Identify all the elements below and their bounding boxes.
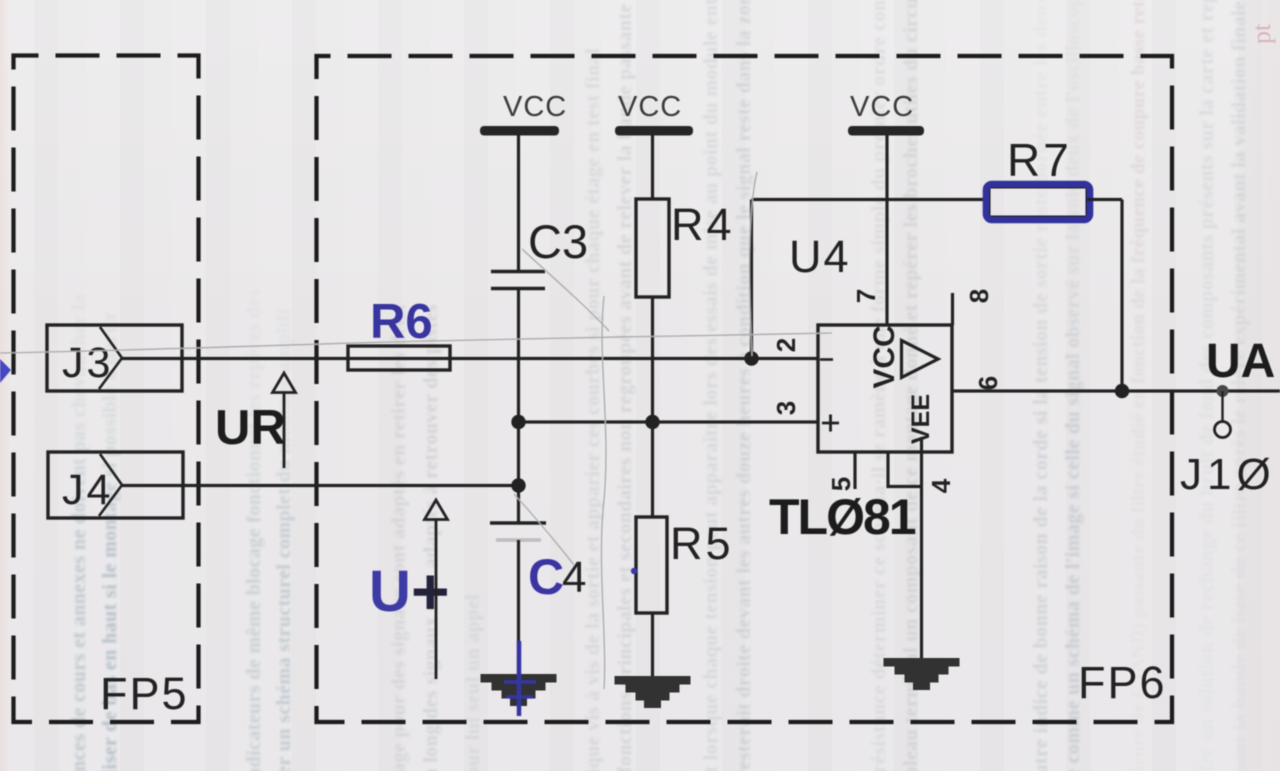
- wire C4 to ground: [517, 540, 520, 676]
- svg-text:UR: UR: [215, 401, 286, 455]
- svg-text:VEE: VEE: [907, 394, 935, 444]
- ground (C4): [481, 674, 557, 706]
- pin 8 number: [964, 289, 994, 303]
- label J10: [1180, 450, 1276, 499]
- label R6 (blue pen): [370, 295, 433, 349]
- op-amp plus tick (pin3): [822, 415, 839, 432]
- svg-text:VCC: VCC: [850, 91, 914, 123]
- wire output riser: [1120, 200, 1123, 392]
- svg-text:R7: R7: [1007, 134, 1072, 186]
- wire J3 to opamp pin2: [122, 357, 818, 360]
- svg-text:J4: J4: [62, 466, 113, 514]
- connector J3: [47, 325, 182, 391]
- FP5 dashed border: [14, 56, 199, 723]
- arrow UR: [273, 373, 296, 468]
- svg-text:C3: C3: [528, 215, 588, 268]
- svg-text:R4: R4: [671, 199, 735, 250]
- svg-text:pt: pt: [1247, 23, 1276, 44]
- connector J4: [48, 452, 183, 518]
- svg-text:U4: U4: [789, 231, 851, 282]
- wire VCC to R4: [651, 135, 654, 199]
- resistor R5: [636, 517, 667, 613]
- svg-text:7: 7: [851, 289, 881, 303]
- label R5: [670, 518, 734, 569]
- junction C3/pin3: [511, 415, 525, 429]
- arrow U+: [425, 500, 448, 679]
- op-amp U4 body: [818, 325, 952, 452]
- pin 3 number: [771, 401, 801, 415]
- blue dot on R5: [631, 568, 637, 574]
- pin 6 number: [973, 376, 1003, 390]
- resistor R4: [636, 199, 669, 297]
- wire VCC to C3: [517, 135, 520, 270]
- FP6 label: [1078, 657, 1167, 708]
- junction R4/pin3: [645, 415, 659, 429]
- wire C3 to C4 node: [517, 289, 520, 524]
- pin 7 wire: [885, 135, 888, 325]
- junction output node: [1115, 384, 1129, 398]
- svg-text:J1Ø: J1Ø: [1180, 450, 1276, 499]
- svg-text:4: 4: [562, 553, 586, 602]
- capacitor C3: [491, 272, 545, 289]
- FP6 dashed border: [317, 56, 1173, 722]
- label UA: [1206, 335, 1275, 388]
- ground (U4): [884, 658, 960, 690]
- op-amp VEE text (rotated): [907, 394, 935, 444]
- pin 6 wire (output): [952, 389, 1280, 392]
- svg-text:3: 3: [771, 401, 801, 415]
- svg-text:J3: J3: [62, 339, 113, 387]
- label C4 (blue C, black 4): [528, 549, 586, 605]
- op-amp minus tick (pin2): [820, 358, 833, 361]
- blue pen arrow at left margin: [0, 359, 11, 383]
- paper scratch lines: [0, 172, 832, 689]
- svg-text:VCC: VCC: [868, 325, 901, 388]
- pin 4 wire: [888, 452, 921, 487]
- label TL081: [769, 489, 916, 545]
- op-amp triangle: [902, 341, 939, 378]
- FP5 label: [100, 668, 189, 719]
- pin 5 number: [826, 477, 856, 491]
- svg-text:C: C: [528, 549, 564, 605]
- wire J4 to C4 node: [122, 484, 519, 487]
- svg-text:TLØ81: TLØ81: [769, 489, 916, 545]
- wire pin3 node: [519, 420, 819, 423]
- junction pin2 node: [744, 351, 758, 365]
- svg-text:VCC: VCC: [503, 91, 567, 123]
- ground (R5): [615, 676, 691, 708]
- svg-text:8: 8: [964, 289, 994, 303]
- VCC symbol above R4: [615, 91, 693, 136]
- wire feedback top to R7: [752, 198, 990, 201]
- wire R7 to output riser: [1087, 198, 1122, 201]
- svg-text:6: 6: [973, 376, 1003, 390]
- pin 5 wire (n.c.): [853, 452, 856, 489]
- node UA tick: [1217, 385, 1229, 421]
- resistor R6: [348, 346, 450, 370]
- blue pen trace over R7: [986, 184, 1090, 220]
- wire feedback riser: [750, 200, 753, 359]
- svg-text:VCC: VCC: [618, 91, 682, 123]
- pin 2 number: [771, 338, 801, 352]
- svg-text:R5: R5: [670, 518, 734, 569]
- svg-text:FP5: FP5: [100, 668, 189, 719]
- svg-text:FP6: FP6: [1078, 657, 1167, 708]
- pin 8 wire (n.c.): [951, 293, 954, 325]
- svg-text:U: U: [369, 559, 411, 624]
- label R4: [671, 199, 735, 250]
- VCC symbol above U4 pin7: [848, 91, 924, 136]
- red margin marks: [1247, 23, 1276, 44]
- VCC symbol above C3: [480, 91, 567, 136]
- op-amp VCC text (rotated): [868, 325, 901, 388]
- label UR: [215, 401, 286, 455]
- label R7: [1007, 134, 1072, 186]
- wire R4 down through pin3 node to R5: [651, 297, 654, 517]
- label U+ (blue U, black +): [369, 554, 450, 628]
- blue pen mark over C4 ground: [504, 641, 536, 716]
- connector J10 pin circle: [1215, 422, 1231, 438]
- pin 7 number: [851, 289, 881, 303]
- junction J4/C4: [511, 478, 525, 492]
- svg-text:+: +: [411, 554, 450, 628]
- wire R5 to ground: [651, 613, 654, 678]
- svg-text:UA: UA: [1206, 335, 1275, 388]
- capacitor C4: [490, 523, 546, 540]
- pin 4 number: [926, 478, 956, 493]
- label U4: [789, 231, 851, 282]
- VEE wire to ground: [920, 437, 923, 659]
- svg-text:2: 2: [771, 338, 801, 352]
- label C3: [528, 215, 588, 268]
- resistor R7: [989, 187, 1087, 217]
- svg-text:4: 4: [926, 478, 956, 493]
